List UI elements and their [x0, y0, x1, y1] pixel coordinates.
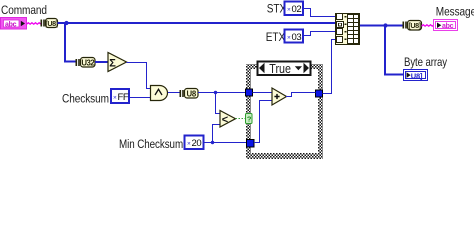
- wire xFF to AND bottom input: [130, 97, 151, 99]
- svg-text:abc: abc: [5, 21, 17, 28]
- wire bottom tunnel up to add bottom input: [254, 101, 273, 143]
- constant x02: [285, 2, 304, 16]
- svg-text:Command: Command: [1, 4, 47, 17]
- wire down to less-than top input: [216, 93, 221, 114]
- svg-text:×: ×: [187, 141, 191, 148]
- wire string to Message (pink): [422, 25, 434, 27]
- function Less Than?: [220, 111, 236, 128]
- svg-text:×: ×: [113, 95, 117, 102]
- case structure (True case frame): [246, 64, 323, 159]
- svg-text:True: True: [269, 62, 291, 76]
- tunnel input left (blue): [246, 89, 253, 96]
- wire add out to right tunnel: [286, 93, 316, 97]
- svg-text:03: 03: [292, 32, 302, 43]
- wire x03 to build array input 3: [303, 32, 336, 36]
- svg-text:Message: Message: [436, 6, 474, 19]
- wire string Command to converter (pink): [27, 23, 41, 25]
- constant x03: [285, 30, 304, 44]
- tunnel output right (blue): [316, 90, 323, 97]
- constant xFF: [111, 89, 129, 103]
- wire x02 to build array input 1: [303, 9, 336, 17]
- node String To Byte Array: [41, 19, 58, 29]
- wire tunnel to add top input: [253, 92, 273, 94]
- svg-text:?: ?: [247, 115, 252, 124]
- junction dot C: [211, 141, 214, 144]
- function Add Array Elements (sigma): [108, 53, 127, 72]
- wire AND out to U8: [168, 92, 180, 94]
- constant x20: [185, 136, 204, 150]
- svg-text:abc: abc: [442, 23, 454, 30]
- junction dot B: [214, 91, 217, 94]
- wire up to less-than bottom input: [213, 125, 221, 143]
- wire main byte array (2px blue): [58, 22, 337, 24]
- wire right tunnel up to build array input 4: [323, 40, 337, 94]
- wire down to Byte array indicator: [385, 26, 404, 75]
- node To U8 conversion: [180, 89, 199, 99]
- svg-text:Min Checksum: Min Checksum: [119, 138, 183, 151]
- tunnel case selector (green ?): [246, 114, 253, 124]
- svg-text:[U8]: [U8]: [408, 21, 420, 30]
- string indicator Message terminal: [434, 20, 458, 31]
- wire U32 to sum (2px): [95, 61, 108, 63]
- svg-text:Byte array: Byte array: [404, 56, 448, 69]
- wire sigma to AND top input: [127, 63, 151, 89]
- function AND gate: [151, 86, 168, 101]
- wire boolean to selector tunnel (green dashed): [236, 118, 246, 120]
- junction dot D: [383, 23, 387, 27]
- svg-text:U8: U8: [411, 71, 420, 80]
- svg-text:×: ×: [287, 35, 291, 42]
- array indicator Byte array terminal: [404, 70, 428, 81]
- wire down to U32: [65, 23, 76, 62]
- tunnel input bottom-left (blue): [247, 140, 255, 148]
- function Add: [272, 88, 287, 105]
- junction dot A: [64, 21, 68, 25]
- svg-text:02: 02: [292, 4, 302, 15]
- svg-text:Checksum: Checksum: [62, 93, 109, 106]
- wire x20 to case bottom tunnel: [204, 142, 247, 144]
- selector label True: [258, 62, 311, 77]
- svg-text:U8: U8: [187, 90, 197, 99]
- string control Command terminal: [1, 18, 27, 30]
- svg-text:U32: U32: [81, 59, 95, 68]
- node To U32 conversion: [76, 58, 96, 68]
- node Byte Array To String: [403, 21, 422, 31]
- function Build Array: [336, 14, 360, 45]
- wire build array output: [360, 25, 403, 27]
- svg-text:ETX: ETX: [266, 31, 286, 44]
- wire U8 out to case tunnel: [198, 92, 246, 94]
- svg-text:Σ: Σ: [109, 58, 116, 70]
- svg-text:20: 20: [192, 138, 202, 149]
- svg-text:[U8]: [U8]: [45, 19, 57, 28]
- svg-text:<: <: [222, 114, 228, 126]
- svg-text:FF: FF: [118, 92, 129, 103]
- svg-text:×: ×: [287, 7, 291, 14]
